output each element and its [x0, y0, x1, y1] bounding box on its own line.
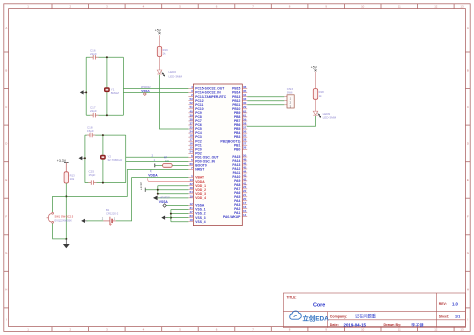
ground	[80, 90, 84, 94]
svg-text:11: 11	[398, 5, 401, 9]
svg-text:22pF: 22pF	[90, 52, 97, 56]
capacitor C18	[90, 135, 92, 136]
wire VDD rows	[158, 185, 189, 187]
svg-text:8MHZ: 8MHZ	[111, 91, 119, 95]
ground	[65, 239, 67, 244]
svg-text:EVQ22NW05K: EVQ22NW05K	[55, 219, 73, 223]
svg-text:NRST: NRST	[195, 168, 204, 172]
crystal Y1 8MHZ	[104, 88, 109, 92]
svg-text:F: F	[467, 215, 469, 219]
svg-text:Company:: Company:	[330, 314, 348, 318]
svg-text:TITLE:: TITLE:	[287, 296, 297, 300]
wire PB13/PB12/PB11 to CN3	[247, 96, 284, 98]
svg-text:15pF: 15pF	[87, 129, 94, 133]
net flag VSSA black arrow	[153, 196, 158, 201]
wire Y2 to PD pins	[126, 156, 189, 158]
svg-text:LED0: LED0	[169, 70, 177, 74]
svg-text:10: 10	[361, 327, 365, 331]
ground	[81, 219, 85, 223]
svg-text:REV:: REV:	[439, 302, 447, 306]
wire crystal2 loop	[85, 134, 126, 136]
crystal Y2 32.768KHz	[100, 155, 105, 159]
svg-text:19: 19	[189, 194, 193, 198]
wire battery to VBAT	[116, 178, 189, 221]
svg-text:18: 18	[189, 218, 193, 222]
svg-text:立创EDA: 立创EDA	[303, 313, 330, 322]
svg-text:D: D	[467, 141, 469, 145]
svg-text:CN3: CN3	[287, 87, 293, 91]
svg-text:2019-04-15: 2019-04-15	[344, 322, 367, 327]
svg-text:+5V: +5V	[155, 29, 162, 33]
svg-text:H: H	[5, 288, 7, 292]
wire LED0 to PC5	[160, 75, 189, 129]
LED LED9 LED-3MM	[313, 111, 318, 115]
wire VSS rows	[171, 209, 189, 211]
svg-text:C: C	[5, 105, 7, 109]
svg-text:32.768KHz: 32.768KHz	[107, 158, 122, 162]
resistor R20 10k BOOT0	[154, 164, 156, 168]
svg-text:VSSA: VSSA	[159, 200, 169, 204]
svg-text:李子健: 李子健	[411, 321, 424, 328]
svg-text:13: 13	[460, 5, 464, 9]
svg-text:14: 14	[243, 213, 247, 217]
svg-text:SW1 SW-DC2.5: SW1 SW-DC2.5	[55, 215, 74, 219]
capacitor C16	[93, 57, 95, 58]
svg-text:LED-3MM: LED-3MM	[169, 75, 183, 79]
title block	[283, 293, 465, 328]
svg-text:+3.3V: +3.3V	[139, 182, 143, 190]
EasyEDA logo	[290, 311, 302, 319]
svg-text:SW6: SW6	[287, 90, 293, 94]
svg-text:A: A	[5, 26, 7, 30]
capacitor C17	[93, 115, 95, 116]
svg-text:11: 11	[398, 327, 401, 331]
svg-text:VDD_4: VDD_4	[195, 196, 206, 200]
svg-text:10: 10	[361, 5, 365, 9]
ground	[79, 156, 83, 160]
svg-text:26: 26	[243, 146, 247, 150]
svg-text:1.0: 1.0	[452, 302, 458, 307]
wire crystal1 loop	[86, 56, 123, 58]
svg-text:E: E	[467, 178, 469, 182]
svg-text:CR1220-2: CR1220-2	[106, 212, 119, 216]
svg-text:VSSA: VSSA	[141, 89, 150, 93]
wire Y1 to OSC pins	[123, 88, 188, 90]
svg-text:H: H	[467, 288, 469, 292]
svg-text:1/1: 1/1	[455, 315, 460, 319]
capacitor C25	[91, 182, 93, 183]
connector CN3	[284, 97, 287, 105]
svg-text:PB0: PB0	[234, 147, 241, 151]
MCU U2 STM32F103	[193, 84, 242, 226]
svg-text:22pF: 22pF	[90, 109, 97, 113]
svg-text:B: B	[467, 68, 469, 72]
resistor R18 1k	[313, 89, 317, 100]
net flag VDDA	[150, 170, 153, 173]
svg-text:12: 12	[434, 327, 438, 331]
switch SW1	[53, 196, 67, 212]
wire crystal1 center	[106, 57, 108, 115]
svg-text:12: 12	[434, 5, 438, 9]
svg-text:B: B	[5, 68, 7, 72]
svg-text:Date:: Date:	[330, 323, 339, 327]
svg-text:E: E	[5, 178, 7, 182]
svg-text:+5V: +5V	[311, 66, 318, 70]
svg-text:记在问题重: 记在问题重	[355, 313, 376, 320]
svg-text:Sheet:: Sheet:	[439, 314, 449, 318]
resistor R13 10k	[64, 172, 68, 183]
LED LED0 LED-3MM	[157, 70, 162, 74]
svg-text:F: F	[5, 215, 7, 219]
wire NRST	[66, 170, 188, 197]
resistor R19 1k	[157, 47, 161, 57]
svg-text:+3.3V: +3.3V	[57, 159, 67, 163]
svg-text:D: D	[5, 141, 7, 145]
svg-text:B1: B1	[106, 208, 110, 212]
svg-text:C: C	[467, 105, 469, 109]
svg-text:Core: Core	[313, 303, 325, 309]
wire VSSA flag	[166, 205, 188, 207]
svg-text:PA0-WKUP: PA0-WKUP	[223, 215, 241, 219]
wire VDDA red	[148, 178, 194, 181]
ground	[161, 216, 165, 220]
svg-text:10k: 10k	[70, 177, 75, 181]
svg-text:A: A	[467, 26, 469, 30]
svg-text:Drawn By:: Drawn By:	[384, 323, 402, 327]
svg-text:LED-3MM: LED-3MM	[323, 116, 337, 120]
wire crystal2 center	[102, 135, 104, 183]
wire LED9 to PB6	[247, 116, 316, 126]
svg-text:13: 13	[460, 327, 464, 331]
svg-text:VDDA: VDDA	[148, 174, 158, 178]
svg-text:15pF: 15pF	[89, 173, 96, 177]
svg-text:VSS_4: VSS_4	[195, 220, 205, 224]
